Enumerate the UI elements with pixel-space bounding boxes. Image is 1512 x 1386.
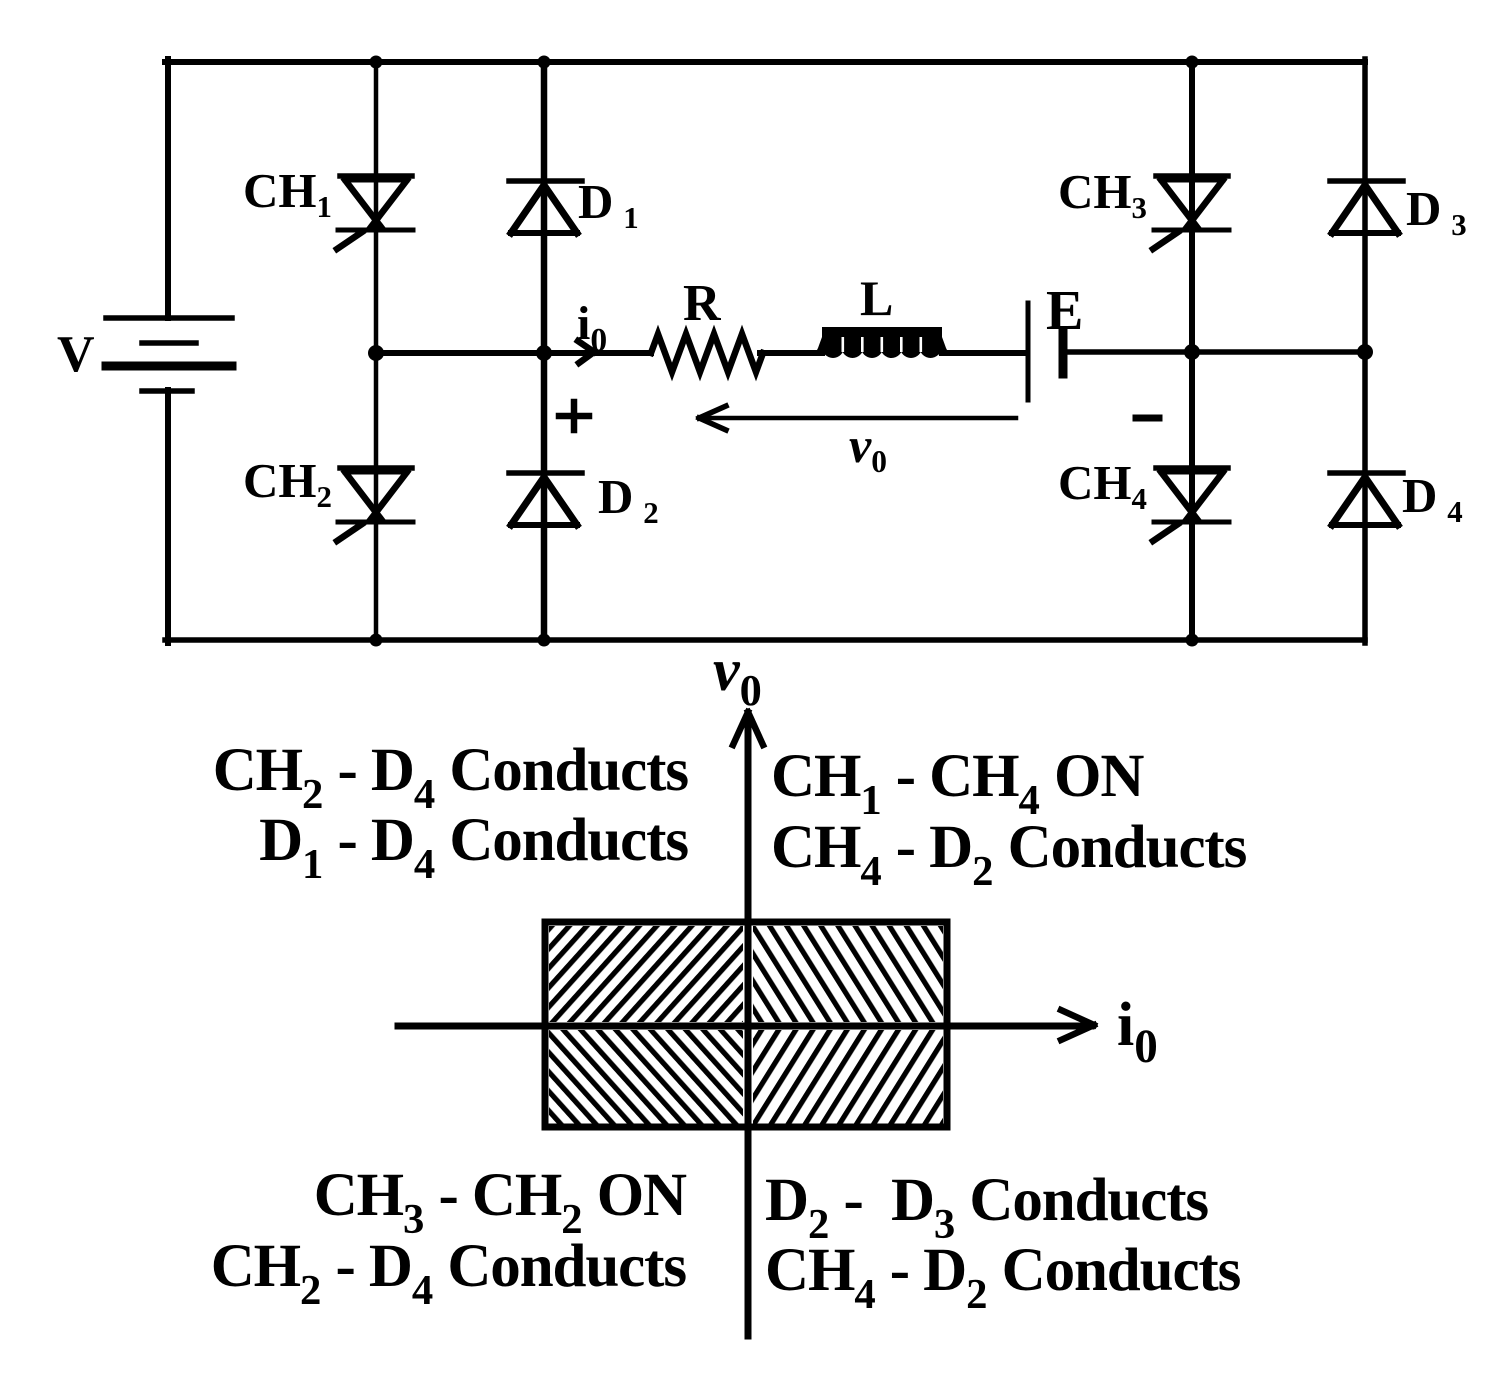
label D4 <box>1402 471 1463 528</box>
hatched region quadrant bottom-left <box>549 1030 743 1124</box>
text quadrant I line 2 <box>771 817 1246 894</box>
diode D3 <box>1330 181 1403 233</box>
wire: load line left segment <box>376 350 651 356</box>
battery V plate short lower <box>142 388 192 394</box>
text quadrant IV line 2 <box>765 1240 1240 1317</box>
node bottom-D2 <box>538 634 551 647</box>
battery V plate short upper <box>142 340 196 346</box>
text quadrant II line 2 <box>259 810 688 887</box>
minus sign <box>1136 415 1159 422</box>
label v0 axis <box>713 640 762 713</box>
arrow v0 under load <box>699 406 1016 430</box>
resistor R <box>651 334 763 372</box>
label L <box>860 273 893 323</box>
arrow i0 on load line <box>578 341 594 363</box>
axis i0 arrowhead <box>1061 1010 1094 1040</box>
wire: load line E to bridge <box>1063 349 1365 355</box>
label E <box>1046 283 1083 339</box>
label D1 <box>578 177 639 234</box>
text quadrant IV line 1 <box>765 1170 1208 1247</box>
hatched region quadrant top-right <box>753 926 943 1022</box>
battery E short plate <box>1059 331 1068 374</box>
axis i0 horizontal <box>398 1023 1091 1030</box>
node top-CH1 <box>370 56 383 69</box>
node mid-D3 <box>1357 344 1373 360</box>
chopper CH4 <box>1153 468 1229 541</box>
inductor L <box>814 327 950 358</box>
wire: load line R to L <box>760 350 820 356</box>
node top-CH3 <box>1186 56 1199 69</box>
label i0 axis <box>1117 994 1158 1071</box>
operating rectangle border <box>545 922 947 1127</box>
battery V plate top long <box>106 315 232 321</box>
hatched region quadrant bottom-right <box>753 1030 943 1124</box>
wire: bottom rail <box>165 637 1365 643</box>
text quadrant III line 1 <box>314 1165 686 1242</box>
wire: leg D1/D2 <box>541 62 548 640</box>
wire: left source branch lower <box>165 390 171 643</box>
battery E long plate <box>1026 303 1031 400</box>
node mid-CH1 <box>368 345 384 361</box>
node mid-D1 <box>536 345 552 361</box>
wire: left source branch upper <box>165 59 171 318</box>
label CH4 <box>1058 458 1147 515</box>
label CH3 <box>1058 167 1147 224</box>
wire: load line L to E <box>944 350 1026 356</box>
node mid-CH3 <box>1184 344 1200 360</box>
diode D1 <box>509 181 582 233</box>
diode D2 <box>509 473 582 525</box>
node bottom-CH4 <box>1186 634 1199 647</box>
wire: leg CH3/CH4 <box>1189 62 1195 640</box>
plus sign <box>559 402 589 430</box>
wire: top rail <box>165 59 1365 65</box>
text quadrant III line 2 <box>211 1236 686 1313</box>
chopper CH2 <box>337 468 413 541</box>
node bottom-CH2 <box>370 634 383 647</box>
axis v0 arrowhead <box>733 712 763 745</box>
wire: leg CH1/CH2 <box>374 62 379 640</box>
text quadrant II line 1 <box>213 740 688 817</box>
label CH1 <box>243 166 332 223</box>
label D3 <box>1406 184 1467 241</box>
chopper CH3 <box>1153 176 1229 249</box>
label R <box>683 278 721 330</box>
node top-D1 <box>538 56 551 69</box>
battery V plate long thick <box>106 362 232 371</box>
axis v0 vertical <box>745 714 752 1336</box>
text quadrant I line 1 <box>771 746 1143 823</box>
label D2 <box>598 472 659 529</box>
wire: leg D3/D4 <box>1362 59 1368 643</box>
chopper CH1 <box>337 176 413 249</box>
hatched region quadrant top-left <box>549 926 743 1022</box>
label v0 voltage <box>849 420 887 478</box>
label CH2 <box>243 456 332 513</box>
diode D4 <box>1330 473 1403 525</box>
label V <box>57 329 95 381</box>
label i0 current <box>577 300 607 358</box>
